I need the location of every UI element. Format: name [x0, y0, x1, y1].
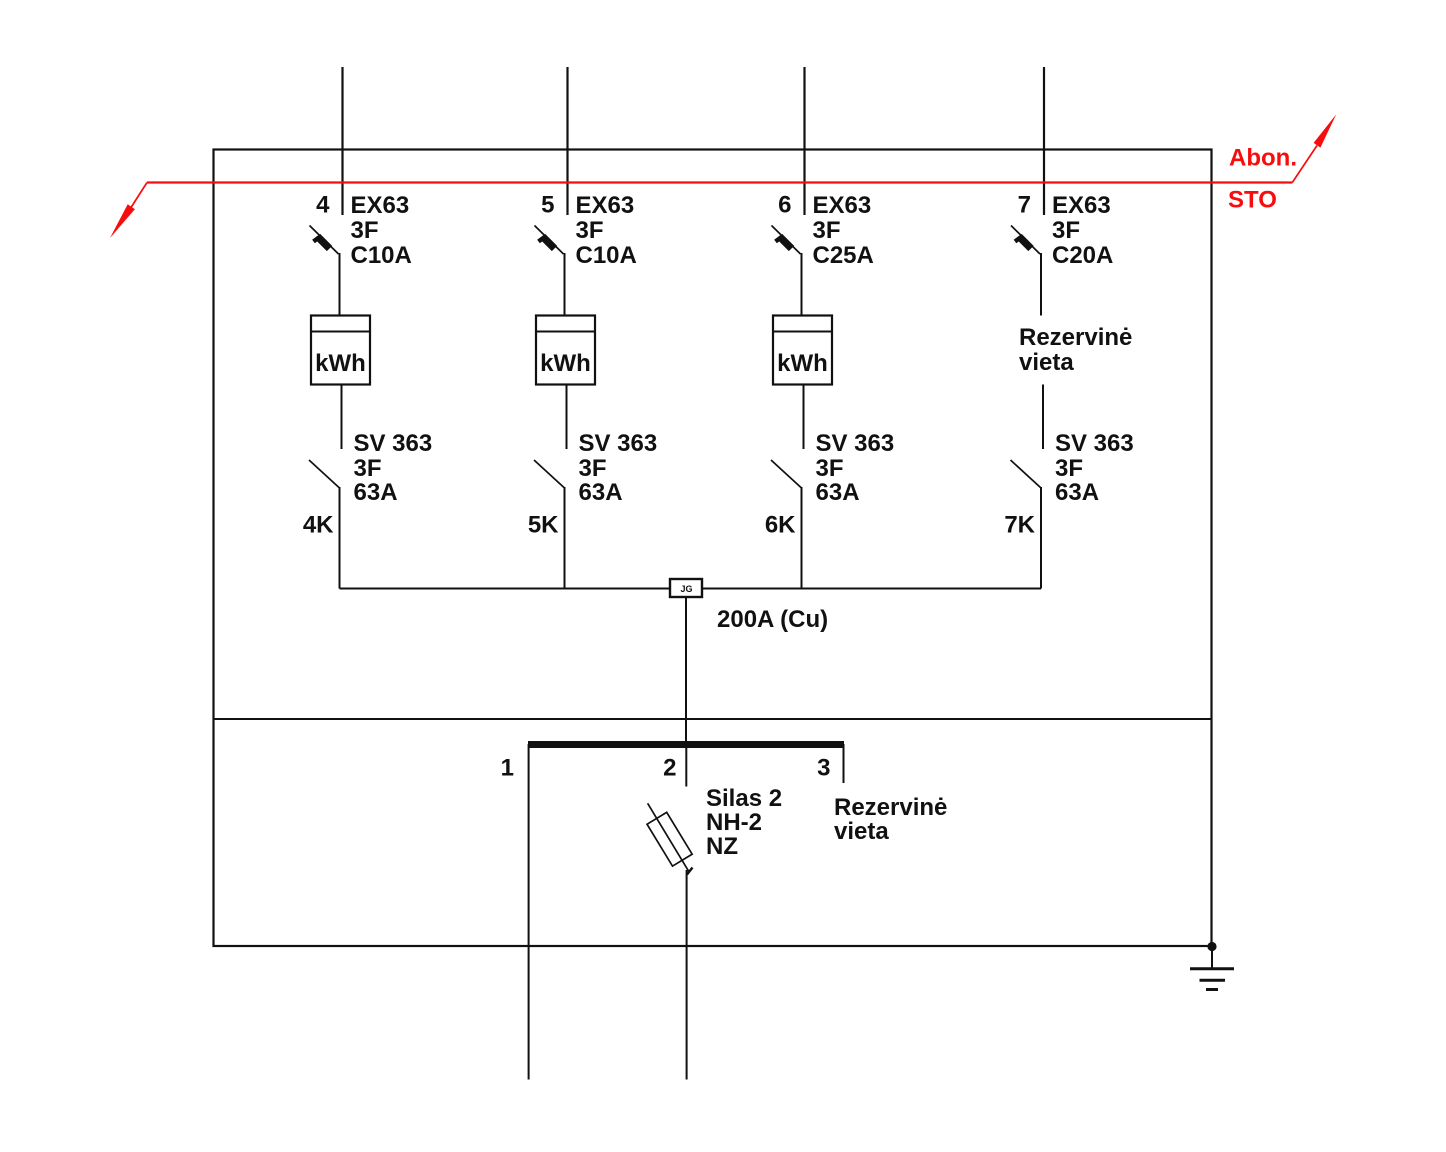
svg-text:200A (Cu): 200A (Cu): [717, 606, 828, 633]
svg-text:63A: 63A: [354, 479, 398, 506]
svg-text:3F: 3F: [351, 217, 379, 244]
svg-text:Abon.: Abon.: [1229, 145, 1297, 172]
svg-text:3F: 3F: [1052, 217, 1080, 244]
svg-text:3F: 3F: [816, 455, 844, 482]
svg-text:4: 4: [316, 192, 330, 219]
svg-text:1: 1: [501, 755, 514, 782]
svg-text:2: 2: [663, 755, 676, 782]
svg-text:Rezervinė: Rezervinė: [1019, 324, 1132, 351]
svg-text:7K: 7K: [1004, 512, 1035, 539]
svg-text:vieta: vieta: [1019, 349, 1074, 376]
svg-text:SV 363: SV 363: [354, 430, 433, 457]
svg-text:3: 3: [817, 755, 830, 782]
svg-text:63A: 63A: [816, 479, 860, 506]
svg-text:SV 363: SV 363: [816, 430, 895, 457]
svg-text:kWh: kWh: [315, 350, 366, 377]
svg-text:Rezervinė: Rezervinė: [834, 794, 947, 821]
svg-text:EX63: EX63: [813, 192, 872, 219]
svg-text:7: 7: [1018, 192, 1031, 219]
svg-text:kWh: kWh: [540, 350, 591, 377]
svg-text:NH-2: NH-2: [706, 809, 762, 836]
svg-text:63A: 63A: [579, 479, 623, 506]
svg-text:STO: STO: [1228, 187, 1277, 214]
svg-text:C10A: C10A: [351, 242, 412, 269]
svg-text:NZ: NZ: [706, 833, 738, 860]
svg-text:Silas 2: Silas 2: [706, 785, 782, 812]
svg-text:6K: 6K: [765, 512, 796, 539]
svg-text:3F: 3F: [1055, 455, 1083, 482]
svg-text:3F: 3F: [813, 217, 841, 244]
svg-text:63A: 63A: [1055, 479, 1099, 506]
svg-text:vieta: vieta: [834, 818, 889, 845]
svg-text:EX63: EX63: [1052, 192, 1111, 219]
svg-text:C20A: C20A: [1052, 242, 1113, 269]
svg-text:5K: 5K: [528, 512, 559, 539]
svg-text:3F: 3F: [576, 217, 604, 244]
svg-text:SV 363: SV 363: [579, 430, 658, 457]
svg-text:6: 6: [778, 192, 791, 219]
svg-text:EX63: EX63: [351, 192, 410, 219]
svg-text:3F: 3F: [354, 455, 382, 482]
svg-text:SV 363: SV 363: [1055, 430, 1134, 457]
svg-text:C25A: C25A: [813, 242, 874, 269]
svg-text:EX63: EX63: [576, 192, 635, 219]
svg-text:3F: 3F: [579, 455, 607, 482]
svg-text:C10A: C10A: [576, 242, 637, 269]
svg-text:5: 5: [541, 192, 554, 219]
svg-text:kWh: kWh: [777, 350, 828, 377]
svg-text:JG: JG: [680, 584, 692, 594]
svg-text:4K: 4K: [303, 512, 334, 539]
